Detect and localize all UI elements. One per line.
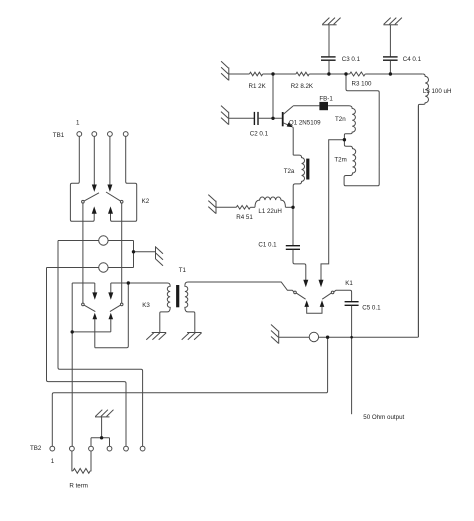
svg-text:1: 1 [51, 458, 55, 465]
svg-text:C3 0.1: C3 0.1 [342, 56, 361, 63]
svg-text:K3: K3 [142, 302, 150, 309]
svg-text:1: 1 [76, 120, 80, 127]
svg-text:L1 22uH: L1 22uH [258, 208, 281, 215]
svg-text:T2n: T2n [335, 116, 346, 123]
svg-text:C2 0.1: C2 0.1 [250, 130, 269, 137]
svg-text:Q1 2N5109: Q1 2N5109 [289, 120, 321, 127]
svg-text:L3 100 uH: L3 100 uH [423, 88, 452, 95]
svg-text:TB1: TB1 [53, 132, 65, 139]
svg-text:K1: K1 [345, 280, 353, 287]
svg-text:C4 0.1: C4 0.1 [403, 56, 422, 63]
svg-text:T2a: T2a [284, 168, 295, 175]
svg-text:C1 0.1: C1 0.1 [258, 241, 277, 248]
svg-text:50 Ohm output: 50 Ohm output [363, 414, 404, 421]
svg-text:R term: R term [69, 482, 88, 489]
svg-text:R3 100: R3 100 [352, 81, 373, 88]
svg-text:K2: K2 [142, 198, 150, 205]
svg-text:R2 8.2K: R2 8.2K [291, 83, 314, 90]
svg-text:C5 0.1: C5 0.1 [362, 304, 381, 311]
svg-text:TB2: TB2 [30, 445, 42, 452]
svg-text:R4 51: R4 51 [236, 214, 253, 221]
svg-text:T1: T1 [179, 267, 187, 274]
svg-text:FB-1: FB-1 [319, 95, 333, 102]
svg-text:R1 2K: R1 2K [249, 83, 267, 90]
svg-text:T2m: T2m [334, 157, 346, 164]
